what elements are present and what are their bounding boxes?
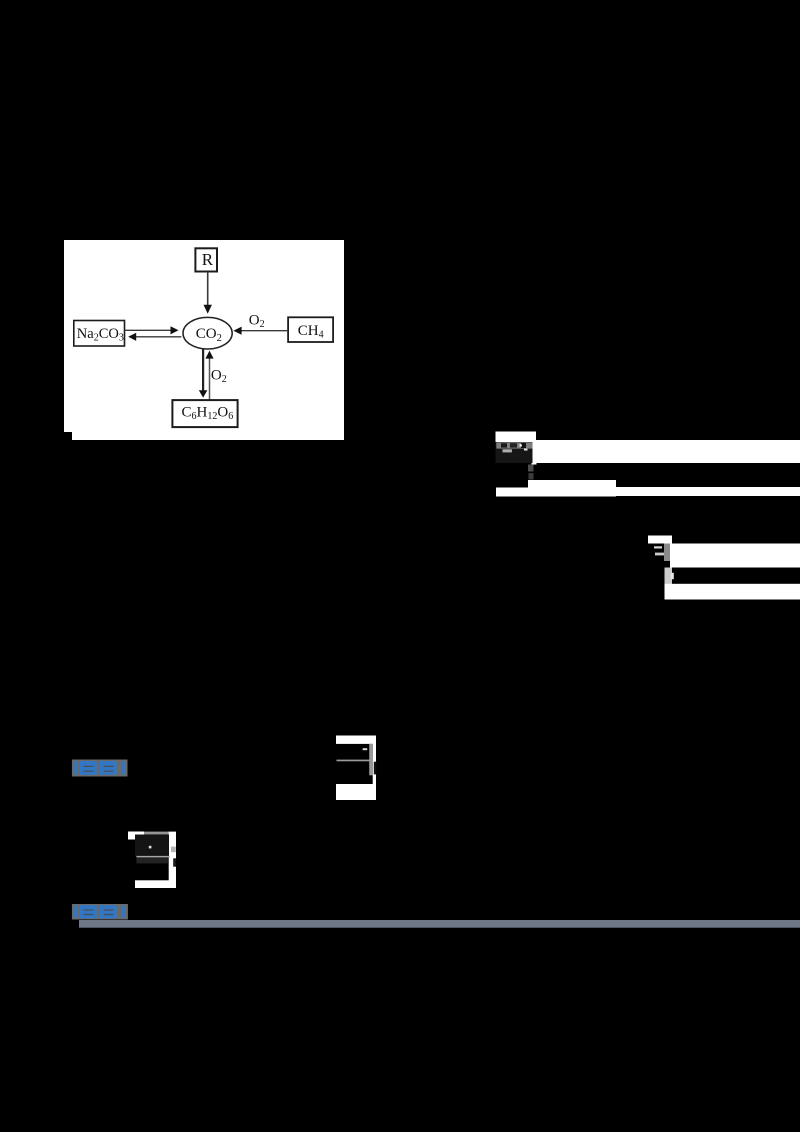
equation image 3 white condition dash (363, 748, 368, 750)
node CO2 ellipse (183, 317, 232, 349)
analysis label box (72, 904, 128, 920)
equation image 4 dark grey band (136, 857, 167, 863)
arrow CO2 to C6H12O6 (199, 349, 208, 397)
equation image 4 fraction bar (136, 856, 169, 858)
equation image 3 white right column (373, 736, 376, 801)
equation image 1 white right column (532, 442, 537, 465)
equation image 4 white right column (169, 832, 176, 888)
white text bar D (665, 584, 800, 600)
white text bar B lower-left step (496, 488, 616, 497)
equation image 2 white condition dashes (654, 546, 664, 555)
answer label box (72, 760, 128, 777)
white diagram panel bottom strip (72, 432, 344, 440)
box R (195, 248, 217, 271)
svg-text:R: R (202, 250, 214, 269)
box Na2CO3 (74, 321, 125, 347)
white text bar C (670, 544, 800, 568)
equation image 4 grey top band (144, 832, 169, 835)
equation image 3 white bottom block (336, 784, 376, 800)
equation image 3 white top patch (336, 736, 376, 744)
box CH4 (288, 317, 333, 342)
equation image 3 black integral glyph (374, 762, 377, 775)
equation image 2 white top patch (648, 536, 672, 544)
arrow CH4 to CO2 (233, 327, 288, 335)
equation image 1 condition text grey band (496, 442, 532, 448)
equation image 1 white top patch (496, 432, 537, 443)
equation image 4 white top-left patch (128, 832, 144, 840)
equation image 4 white speck (149, 846, 152, 849)
white text bar B left step (528, 480, 616, 496)
horizontal rule (79, 920, 800, 928)
equation image 3 fraction bar (337, 760, 373, 762)
equation image 1 grey descender mark (528, 465, 534, 480)
arrow Na2CO3 to CO2 (125, 326, 179, 334)
arrow CO2 to Na2CO3 (128, 333, 181, 341)
white text bar B right segment (616, 487, 800, 496)
analysis label glyphs (74, 905, 125, 918)
equation image 1 lower squiggle (503, 449, 512, 452)
equation image 1 white speck (524, 449, 528, 451)
white diagram panel (64, 240, 344, 432)
white parenthesis glyph on black band (671, 573, 674, 579)
answer label glyphs (74, 761, 125, 775)
box C6H12O6 (172, 400, 237, 427)
svg-text:Na2CO3: Na2CO3 (77, 326, 124, 344)
arrow R to CO2 (204, 272, 212, 314)
equation image 4 dark halo (135, 835, 169, 857)
equation image 4 grey segment on right column (171, 847, 176, 853)
svg-text:C6H12O6: C6H12O6 (182, 405, 234, 423)
light grey strip left of black band (665, 568, 673, 585)
equation image 3 grey right strip (369, 744, 373, 776)
arrow C6H12O6 to CO2 (205, 351, 213, 400)
equation image 2 grey right strip (664, 544, 671, 562)
equation image 4 white bottom bar (135, 880, 176, 888)
equation image 4 dark s glyph (173, 858, 176, 866)
white text bar A (536, 440, 800, 463)
equation image 1 dark halo (496, 442, 533, 463)
